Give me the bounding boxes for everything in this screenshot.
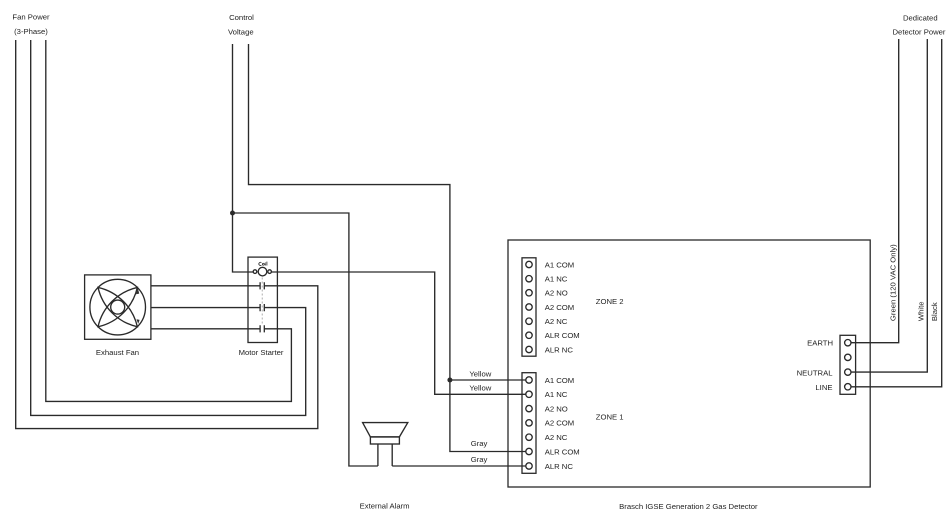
- terminal Z2-6 ALR COM: [526, 332, 532, 338]
- svg-text:Yellow: Yellow: [469, 383, 491, 392]
- wire fan motor lead T3: [151, 328, 260, 330]
- motor starter enclosure: [248, 257, 277, 342]
- node Fan Power label: [12, 13, 50, 36]
- fan blade lens NW-SE: [98, 287, 137, 326]
- svg-text:A1 COM: A1 COM: [545, 260, 574, 269]
- svg-text:ALR NC: ALR NC: [545, 462, 574, 471]
- fan rotation arrow bottom: [137, 319, 140, 324]
- alarm terminal leg right: [391, 444, 393, 466]
- svg-text:A1 COM: A1 COM: [545, 376, 574, 385]
- exhaust fan rim circle: [90, 279, 146, 335]
- zone 2 terminal strip TB2: [522, 258, 536, 356]
- svg-text:Gray: Gray: [471, 455, 488, 464]
- wire fan power phase L2: [31, 40, 306, 415]
- svg-text:Exhaust Fan: Exhaust Fan: [96, 348, 139, 357]
- terminal Z2-4 A2 COM: [526, 304, 532, 310]
- svg-text:A2 COM: A2 COM: [545, 303, 574, 312]
- wire fan power phase L3: [46, 40, 292, 401]
- alarm terminal leg left: [377, 444, 379, 466]
- wire fan motor lead T1: [151, 285, 260, 287]
- svg-text:Yellow: Yellow: [469, 370, 491, 379]
- junction control/alarm tap: [230, 211, 235, 216]
- terminal Z1-1 A1 COM: [526, 377, 532, 383]
- wire alarm return to ALR NC (gray): [392, 465, 526, 467]
- contact bars pole 3: [260, 325, 264, 332]
- terminal Z2-7 ALR NC: [526, 346, 532, 352]
- svg-text:A1 NC: A1 NC: [545, 390, 568, 399]
- svg-text:ZONE 2: ZONE 2: [596, 297, 624, 306]
- svg-text:Fan Power: Fan Power: [12, 13, 50, 22]
- exhaust fan enclosure: [85, 275, 151, 339]
- fan blade lens NE-SW: [98, 287, 137, 326]
- terminal Z1-4 A2 COM: [526, 420, 532, 426]
- contact bars pole 1: [260, 282, 264, 289]
- svg-text:A2 NO: A2 NO: [545, 289, 568, 298]
- terminal Z1-2 A1 NC: [526, 391, 532, 397]
- svg-text:White: White: [917, 301, 926, 321]
- svg-text:Brasch IGSE Generation 2 Gas D: Brasch IGSE Generation 2 Gas Detector: [619, 502, 758, 511]
- zone 1 terminal strip TB1: [522, 373, 536, 474]
- fan hub: [111, 300, 125, 314]
- svg-text:A2 NC: A2 NC: [545, 433, 568, 442]
- svg-text:Green (120 VAC Only): Green (120 VAC Only): [889, 244, 898, 321]
- terminal Z2-3 A2 NO: [526, 290, 532, 296]
- terminal NEUTRAL: [845, 369, 851, 375]
- terminal Z1-6 ALR COM: [526, 448, 532, 454]
- node Coil label (drawn as strokes): [259, 262, 267, 266]
- terminal spare: [845, 354, 851, 360]
- wire fan motor lead T2: [151, 307, 260, 309]
- zone 2 terminal labels: [545, 260, 580, 354]
- svg-text:A1 NC: A1 NC: [545, 275, 568, 284]
- terminal Z1-5 A2 NC: [526, 434, 532, 440]
- wire neutral (white): [851, 39, 927, 372]
- wire fan power phase L1: [16, 40, 318, 429]
- terminal EARTH: [845, 340, 851, 346]
- svg-text:ALR NC: ALR NC: [545, 345, 574, 354]
- power terminal strip TB3: [840, 335, 856, 394]
- terminal Z2-2 A1 NC: [526, 276, 532, 282]
- svg-text:ALR COM: ALR COM: [545, 331, 580, 340]
- svg-text:(3-Phase): (3-Phase): [14, 27, 48, 36]
- svg-text:Voltage: Voltage: [228, 27, 254, 36]
- svg-text:A2 COM: A2 COM: [545, 419, 574, 428]
- svg-text:External Alarm: External Alarm: [360, 501, 410, 510]
- wire control voltage to detector: [249, 44, 527, 452]
- svg-text:A2 NO: A2 NO: [545, 404, 568, 413]
- external alarm body: [370, 437, 399, 444]
- svg-text:NEUTRAL: NEUTRAL: [797, 369, 834, 378]
- svg-text:EARTH: EARTH: [807, 339, 833, 348]
- svg-text:Motor Starter: Motor Starter: [239, 348, 284, 357]
- wire control voltage to coil: [233, 44, 254, 272]
- svg-text:Gray: Gray: [471, 439, 488, 448]
- mechanical linkage (dashed): [261, 278, 263, 325]
- terminal Z2-1 A1 COM: [526, 261, 532, 267]
- svg-text:Detector Power: Detector Power: [893, 27, 946, 36]
- wire line (black): [851, 39, 942, 387]
- gas detector enclosure U1: [508, 240, 870, 487]
- svg-text:LINE: LINE: [815, 383, 832, 392]
- wire earth (green): [851, 39, 899, 343]
- contact bars pole 2: [260, 304, 264, 311]
- node Dedicated Detector Power label: [893, 14, 946, 37]
- coil terminal left: [253, 270, 257, 274]
- svg-text:Control: Control: [229, 13, 254, 22]
- svg-text:A2 NC: A2 NC: [545, 317, 568, 326]
- svg-text:Dedicated: Dedicated: [903, 14, 938, 23]
- svg-text:ALR COM: ALR COM: [545, 447, 580, 456]
- zone 1 terminal labels: [545, 376, 580, 471]
- coil terminal right: [268, 270, 272, 274]
- svg-text:Black: Black: [930, 302, 939, 321]
- terminal Z1-3 A2 NO: [526, 405, 532, 411]
- wire alarm feed: [233, 213, 378, 466]
- terminal LINE: [845, 384, 851, 390]
- junction yellow tap: [447, 378, 452, 383]
- fan rotation arrow top: [136, 288, 139, 294]
- terminal Z2-5 A2 NC: [526, 318, 532, 324]
- coil K1: [258, 267, 267, 276]
- terminal Z1-7 ALR NC: [526, 463, 532, 469]
- svg-text:ZONE 1: ZONE 1: [596, 413, 624, 422]
- wire coil to A1 NC (yellow): [272, 272, 527, 394]
- wire yellow to A1 COM: [450, 379, 526, 381]
- external alarm horn: [363, 423, 408, 437]
- node Control Voltage label: [228, 13, 254, 36]
